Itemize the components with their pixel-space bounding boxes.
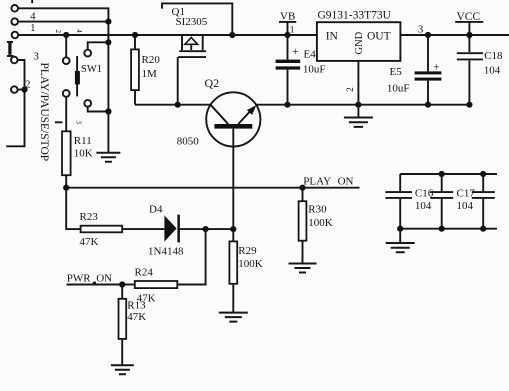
svg-text:E5: E5: [390, 66, 403, 78]
svg-text:R13: R13: [127, 300, 146, 312]
svg-text:R30: R30: [308, 204, 327, 216]
svg-text:100K: 100K: [238, 258, 262, 270]
svg-text:PLAY: PLAY: [303, 176, 331, 188]
svg-text:3: 3: [75, 121, 83, 125]
svg-text:47K: 47K: [127, 311, 146, 323]
svg-text:47K: 47K: [80, 236, 99, 248]
svg-text:GND: GND: [354, 31, 365, 54]
svg-text:IN: IN: [326, 31, 339, 43]
svg-text:SW1: SW1: [81, 64, 102, 75]
svg-text:100K: 100K: [308, 217, 333, 229]
svg-text:+: +: [433, 61, 440, 73]
svg-text:D4: D4: [149, 204, 163, 216]
svg-text:4: 4: [75, 29, 83, 33]
svg-text:3: 3: [418, 25, 423, 36]
svg-text:VB: VB: [280, 11, 295, 23]
svg-text:3: 3: [34, 52, 39, 63]
svg-text:OUT: OUT: [367, 31, 391, 43]
svg-text:104: 104: [484, 65, 501, 77]
svg-text:G9131-33T73U: G9131-33T73U: [318, 10, 392, 22]
svg-text:1N4148: 1N4148: [148, 246, 184, 258]
svg-text:C16: C16: [415, 188, 434, 200]
svg-text:E4: E4: [304, 49, 317, 61]
svg-text:R11: R11: [74, 135, 92, 147]
svg-text:2: 2: [54, 30, 62, 34]
svg-text:1: 1: [30, 23, 35, 34]
svg-text:1M: 1M: [142, 68, 158, 80]
svg-text:R24: R24: [135, 266, 154, 278]
svg-text:10uF: 10uF: [387, 83, 410, 95]
svg-text:2: 2: [345, 87, 355, 92]
svg-text:R20: R20: [142, 54, 161, 66]
svg-text:1: 1: [290, 26, 295, 36]
svg-text:C17: C17: [457, 188, 476, 200]
svg-text:104: 104: [457, 200, 474, 212]
svg-text:R23: R23: [80, 211, 99, 223]
svg-text:10uF: 10uF: [303, 64, 326, 76]
svg-text:ON: ON: [96, 272, 112, 284]
svg-text:PLAY/PAUSE/STOP: PLAY/PAUSE/STOP: [38, 63, 50, 162]
svg-text:R29: R29: [238, 245, 257, 257]
svg-text:SI2305: SI2305: [176, 16, 208, 28]
svg-text:Q2: Q2: [205, 76, 220, 90]
svg-text:2: 2: [25, 80, 30, 91]
svg-text:ON: ON: [338, 176, 354, 188]
svg-text:10K: 10K: [74, 148, 93, 160]
svg-text:C18: C18: [484, 50, 503, 62]
svg-text:8050: 8050: [177, 136, 200, 148]
svg-text:104: 104: [415, 200, 432, 212]
svg-text:PWR: PWR: [67, 272, 92, 284]
svg-text:+: +: [292, 46, 299, 58]
